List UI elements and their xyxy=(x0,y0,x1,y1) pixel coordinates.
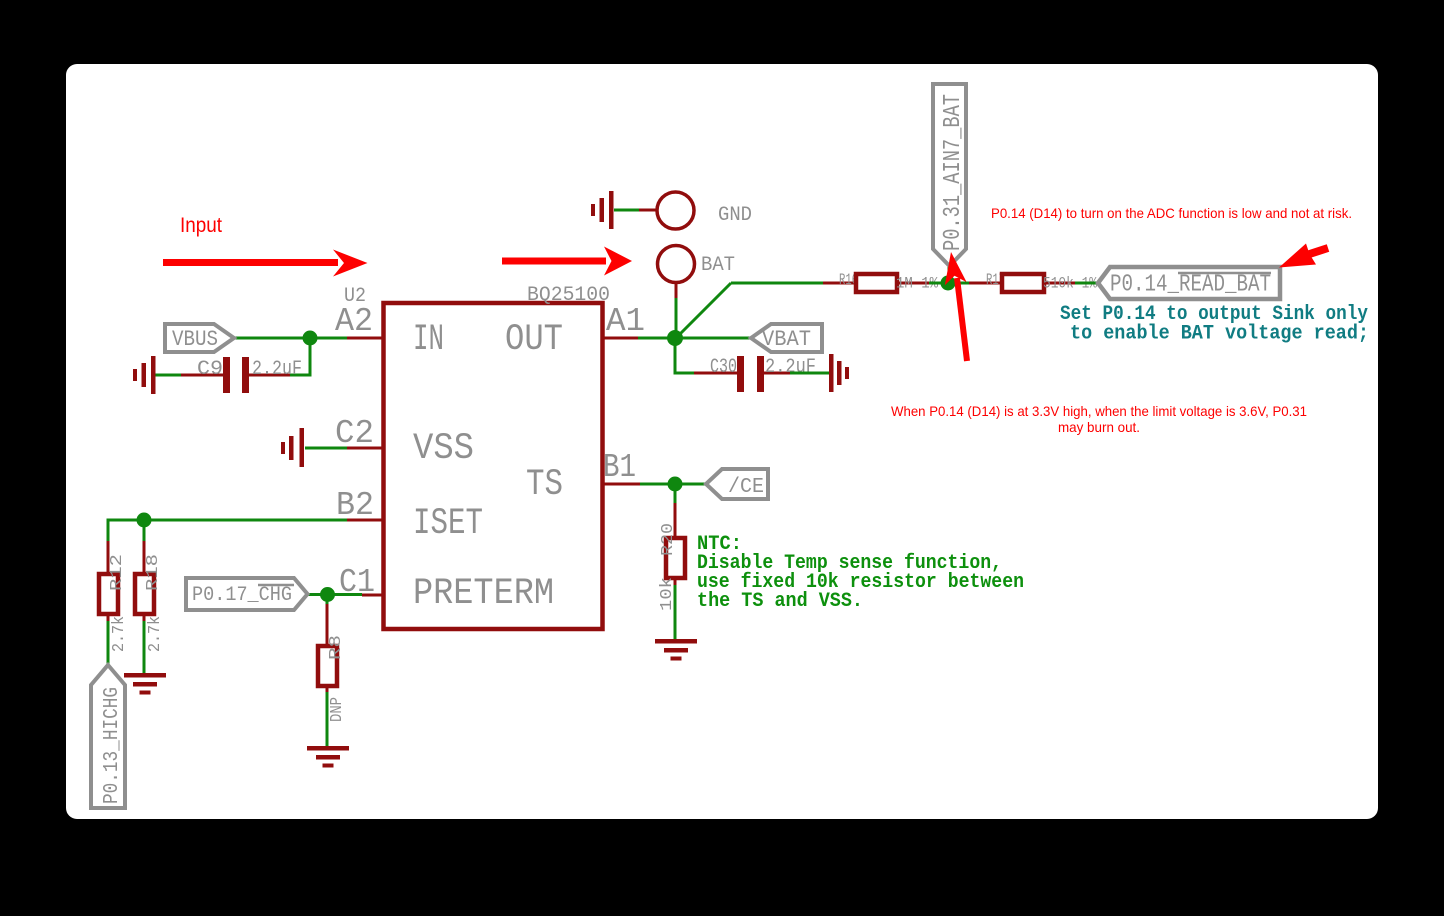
svg-text:/CE: /CE xyxy=(728,476,764,499)
resistor R20 xyxy=(666,503,685,585)
IC U2 pin name IN xyxy=(413,319,444,361)
resistor R16 value 1M 1% xyxy=(896,275,938,293)
net flag P0.31_AIN7_BAT xyxy=(933,84,967,266)
wire R8 to ground xyxy=(326,692,329,747)
wire P0.31 node to R17 xyxy=(948,282,1002,285)
port BAT label xyxy=(701,254,735,277)
svg-text:VBAT: VBAT xyxy=(762,327,811,352)
capacitor C30 value 2.2uF xyxy=(765,356,816,379)
junction VBUS node xyxy=(303,331,318,346)
resistor R20 value 10k xyxy=(658,577,677,611)
capacitor C9 value 2.2uF xyxy=(252,358,302,381)
svg-text:2.7k: 2.7k xyxy=(146,616,165,652)
junction VBAT node xyxy=(667,330,683,346)
net flag P0.17_CHG xyxy=(186,578,308,610)
svg-text:GND: GND xyxy=(718,204,752,227)
capacitor C9 xyxy=(181,357,290,393)
resistor R12 refdes xyxy=(108,554,127,591)
net flag P0.13_HICHG xyxy=(91,665,125,808)
svg-text:2.2uF: 2.2uF xyxy=(252,358,302,381)
wire C1 net xyxy=(307,595,384,605)
ground at C30 xyxy=(829,354,849,392)
svg-text:IN: IN xyxy=(413,319,444,361)
resistor R8 refdes xyxy=(327,635,346,660)
resistor R16 xyxy=(856,274,929,292)
svg-text:P0.14 (D14) to turn on the ADC: P0.14 (D14) to turn on the ADC function … xyxy=(991,205,1352,221)
port GND circle xyxy=(657,192,694,229)
wire VBUS node to C9 xyxy=(290,338,310,375)
port BAT circle xyxy=(658,246,695,283)
svg-text:the TS and VSS.: the TS and VSS. xyxy=(697,590,863,613)
annotation text Input xyxy=(180,214,222,237)
svg-text:C30: C30 xyxy=(710,356,737,379)
capacitor C30 refdes xyxy=(710,356,737,379)
wire R16 to P0.31 node xyxy=(929,282,948,285)
svg-text:OUT: OUT xyxy=(505,319,563,361)
wire pin B1 to CE node xyxy=(602,483,675,486)
IC U2 BQ25100 body xyxy=(384,303,603,629)
svg-text:Input: Input xyxy=(180,214,222,237)
svg-text:may burn out.: may burn out. xyxy=(1058,419,1140,435)
svg-text:C2: C2 xyxy=(335,415,374,452)
annotation text NTC line2 xyxy=(697,552,1002,575)
wire R18 to ground xyxy=(143,621,146,674)
wire ground to C9 xyxy=(155,374,181,377)
IC U2 pin name OUT xyxy=(505,319,563,361)
annotation text NTC line4 xyxy=(697,590,863,613)
junction C1 node xyxy=(320,587,335,602)
wire P0.31 node to flag xyxy=(948,266,951,283)
svg-text:P0.13_HICHG: P0.13_HICHG xyxy=(101,687,124,804)
port GND label xyxy=(718,204,752,227)
svg-text:R20: R20 xyxy=(659,523,678,556)
resistor R12 value 2.7k xyxy=(110,616,129,652)
ground at C9 xyxy=(133,356,156,394)
wire VBUS net to pin A2 xyxy=(234,337,384,340)
annotation text NTC line1 xyxy=(697,533,742,556)
net flag VBUS xyxy=(165,324,234,352)
svg-text:2.7k: 2.7k xyxy=(110,616,129,652)
svg-text:C9: C9 xyxy=(197,358,223,381)
wire ISET net xyxy=(108,520,384,541)
wire ground to pin C2 xyxy=(305,447,384,450)
IC U2 pin name TS xyxy=(526,464,563,506)
svg-text:R18: R18 xyxy=(144,554,163,591)
svg-text:P0.17_CHG: P0.17_CHG xyxy=(192,584,292,607)
wire R12 to P0.13_HICHG xyxy=(107,621,110,665)
svg-text:DNP: DNP xyxy=(328,697,347,722)
svg-text:VBUS: VBUS xyxy=(172,327,218,352)
svg-text:A2: A2 xyxy=(335,303,373,340)
svg-text:A1: A1 xyxy=(606,303,645,340)
IC U2 refdes U2 xyxy=(344,285,366,308)
IC U2 pin name ISET xyxy=(413,503,483,545)
junction CE node xyxy=(668,477,683,492)
junction ISET node xyxy=(137,513,152,528)
net flag /CE xyxy=(706,469,768,499)
svg-text:2.2uF: 2.2uF xyxy=(765,356,816,379)
svg-text:BQ25100: BQ25100 xyxy=(527,284,610,307)
IC U2 pin name PRETERM xyxy=(413,573,554,615)
wire VBAT node to BAT port xyxy=(675,283,678,338)
pin B2 label xyxy=(336,487,374,524)
ground under R8 xyxy=(307,746,349,768)
pin B1 label xyxy=(603,449,636,486)
net flag VBAT xyxy=(751,324,822,352)
wire C30 to ground xyxy=(790,372,829,375)
ground under R18 xyxy=(124,673,166,695)
wire CE node to R20 xyxy=(674,484,677,503)
svg-text:R12: R12 xyxy=(108,554,127,591)
wire ground to GND port xyxy=(614,209,657,212)
svg-text:When P0.14 (D14) is at 3.3V hi: When P0.14 (D14) is at 3.3V high, when t… xyxy=(891,403,1307,419)
svg-text:to enable BAT voltage read;: to enable BAT voltage read; xyxy=(1070,323,1369,346)
annotation arrow to READ_BAT flag xyxy=(1279,244,1328,268)
annotation text Set P0.14 line2 xyxy=(1070,323,1369,346)
junction P0.31 node xyxy=(941,276,956,291)
resistor R12 xyxy=(99,541,118,621)
annotation text burn out line1 xyxy=(891,403,1307,419)
ground under R20 xyxy=(655,639,697,661)
resistor R16 refdes xyxy=(839,271,858,289)
wire R20 to ground xyxy=(674,585,677,640)
svg-text:BAT: BAT xyxy=(701,254,735,277)
svg-text:VSS: VSS xyxy=(413,428,474,470)
pin A1 label xyxy=(606,303,645,340)
wire VBAT node to C30 xyxy=(675,338,694,373)
wire VBAT node to R16 xyxy=(680,283,856,334)
annotation text Set P0.14 line1 xyxy=(1060,303,1368,326)
IC U2 value BQ25100 xyxy=(527,284,610,307)
resistor R20 refdes xyxy=(659,523,678,556)
wire VBAT node to VBAT flag xyxy=(675,337,751,340)
wire pin A1 to VBAT node xyxy=(602,337,675,340)
pin A2 label xyxy=(335,303,373,340)
annotation arrow to P0.31 node xyxy=(945,252,967,361)
svg-text:ISET: ISET xyxy=(413,503,483,545)
annotation arrow mid xyxy=(502,247,632,276)
IC U2 pin name VSS xyxy=(413,428,474,470)
resistor R8 value DNP xyxy=(328,697,347,722)
resistor R17 value 510k 1% xyxy=(1043,275,1097,293)
resistor R18 refdes xyxy=(144,554,163,591)
net flag P0.14_READ_BAT xyxy=(1098,267,1280,299)
wire R17 to READ_BAT flag xyxy=(1075,282,1098,285)
annotation text ADC risk xyxy=(991,205,1352,221)
capacitor C9 refdes xyxy=(197,358,223,381)
svg-text:B2: B2 xyxy=(336,487,374,524)
annotation arrow input xyxy=(163,250,368,277)
resistor R8 xyxy=(318,604,337,692)
resistor R18 xyxy=(135,541,154,621)
capacitor C30 xyxy=(694,356,790,392)
svg-text:TS: TS xyxy=(526,464,563,506)
svg-text:P0.14_READ_BAT: P0.14_READ_BAT xyxy=(1110,272,1271,299)
annotation text burn out line2 xyxy=(1058,419,1140,435)
svg-text:P0.31_AIN7_BAT: P0.31_AIN7_BAT xyxy=(940,94,967,251)
resistor R17 refdes xyxy=(986,271,1005,289)
ground at GND port xyxy=(591,191,614,229)
annotation text NTC line3 xyxy=(697,571,1024,594)
pin C2 label xyxy=(335,415,374,452)
resistor R18 value 2.7k xyxy=(146,616,165,652)
ground at C2 xyxy=(281,428,304,467)
resistor R17 xyxy=(1002,274,1075,292)
svg-text:R8: R8 xyxy=(327,635,346,660)
svg-text:B1: B1 xyxy=(603,449,636,486)
pin C1 label xyxy=(339,564,375,601)
wire CE node to flag xyxy=(675,483,706,486)
svg-text:PRETERM: PRETERM xyxy=(413,573,554,615)
